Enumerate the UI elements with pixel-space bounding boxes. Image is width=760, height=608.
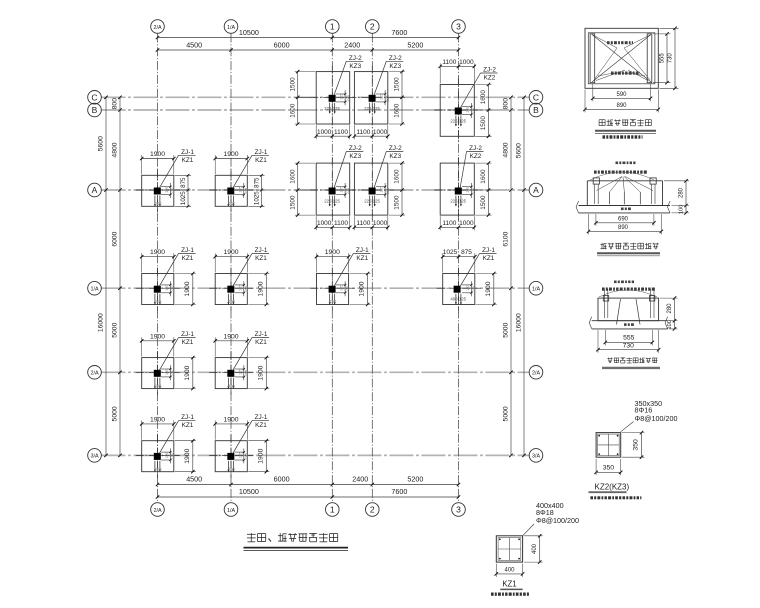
svg-text:5000: 5000 xyxy=(112,322,119,337)
svg-text:1/A: 1/A xyxy=(90,287,98,293)
svg-text:5000: 5000 xyxy=(112,406,119,421)
svg-text:1900: 1900 xyxy=(150,151,165,158)
svg-text:KZ3: KZ3 xyxy=(389,153,401,160)
svg-text:280: 280 xyxy=(667,303,673,314)
svg-text:800: 800 xyxy=(503,98,510,110)
svg-text:400: 400 xyxy=(228,201,236,206)
svg-text:1900: 1900 xyxy=(223,249,238,256)
svg-text:KZ1: KZ1 xyxy=(255,422,267,429)
svg-text:1600: 1600 xyxy=(480,90,487,105)
svg-text:800: 800 xyxy=(112,98,119,110)
svg-text:ZJ-2: ZJ-2 xyxy=(483,67,496,74)
svg-text:7600: 7600 xyxy=(391,28,407,37)
svg-text:ZJ-2: ZJ-2 xyxy=(349,145,362,152)
svg-text:3/A: 3/A xyxy=(90,454,98,460)
svg-text:555: 555 xyxy=(623,335,635,342)
svg-text:KZ3: KZ3 xyxy=(349,153,361,160)
svg-text:5200: 5200 xyxy=(407,475,423,484)
svg-text:7600: 7600 xyxy=(391,487,407,496)
svg-text:1000: 1000 xyxy=(317,129,332,136)
svg-text:225: 225 xyxy=(472,188,476,194)
svg-text:280: 280 xyxy=(679,187,685,198)
svg-text:1000: 1000 xyxy=(373,129,388,136)
svg-text:KZ1: KZ1 xyxy=(255,339,267,346)
svg-text:125: 125 xyxy=(466,186,470,192)
svg-text:1500: 1500 xyxy=(289,77,296,92)
svg-text:1900: 1900 xyxy=(223,416,238,423)
svg-text:ZJ-2: ZJ-2 xyxy=(389,55,402,62)
svg-text:590: 590 xyxy=(616,92,627,98)
svg-text:KZ1: KZ1 xyxy=(255,157,267,164)
svg-text:A: A xyxy=(533,185,539,195)
svg-text:4500: 4500 xyxy=(186,41,202,50)
svg-text:225: 225 xyxy=(245,286,249,292)
svg-text:875: 875 xyxy=(253,177,260,188)
svg-text:730: 730 xyxy=(668,53,674,64)
svg-text:400: 400 xyxy=(450,297,458,302)
svg-text:2: 2 xyxy=(370,505,375,515)
svg-text:125: 125 xyxy=(165,452,169,458)
svg-text:225: 225 xyxy=(171,453,175,459)
svg-text:125: 125 xyxy=(238,369,242,375)
svg-text:400: 400 xyxy=(228,466,236,471)
svg-text:1025: 1025 xyxy=(253,191,260,205)
svg-text:225: 225 xyxy=(364,199,372,204)
svg-text:1500: 1500 xyxy=(394,77,401,92)
svg-text:1100: 1100 xyxy=(442,220,456,227)
svg-text:225: 225 xyxy=(346,188,350,194)
svg-text:225: 225 xyxy=(472,286,476,292)
svg-text:ZJ-2: ZJ-2 xyxy=(389,145,402,152)
svg-text:ZJ-2: ZJ-2 xyxy=(469,145,482,152)
svg-text:1100: 1100 xyxy=(442,59,456,66)
svg-text:1600: 1600 xyxy=(394,103,401,118)
svg-text:400: 400 xyxy=(329,299,337,304)
svg-text:6100: 6100 xyxy=(503,231,510,246)
svg-text:125: 125 xyxy=(340,94,344,100)
svg-text:730: 730 xyxy=(623,342,635,349)
svg-text:1500: 1500 xyxy=(289,195,296,210)
svg-text:10500: 10500 xyxy=(239,487,259,496)
svg-text:125: 125 xyxy=(165,369,169,375)
svg-text:KZ1: KZ1 xyxy=(255,255,267,262)
svg-text:2/A: 2/A xyxy=(532,371,540,377)
svg-text:1/A: 1/A xyxy=(532,287,540,293)
svg-text:1500: 1500 xyxy=(480,116,487,131)
svg-text:890: 890 xyxy=(616,103,627,109)
svg-text:1900: 1900 xyxy=(257,281,264,296)
svg-text:2400: 2400 xyxy=(344,41,360,50)
svg-text:1900: 1900 xyxy=(184,448,191,463)
svg-text:KZ1: KZ1 xyxy=(182,255,194,262)
svg-text:1000: 1000 xyxy=(317,220,332,227)
svg-text:1900: 1900 xyxy=(184,281,191,296)
svg-text:1600: 1600 xyxy=(289,169,296,184)
svg-text:KZ1: KZ1 xyxy=(356,255,368,262)
svg-text:225: 225 xyxy=(171,286,175,292)
svg-text:1900: 1900 xyxy=(184,365,191,380)
svg-text:4800: 4800 xyxy=(112,142,119,157)
svg-text:1100: 1100 xyxy=(356,129,370,136)
svg-text:2/A: 2/A xyxy=(153,508,161,514)
svg-text:1900: 1900 xyxy=(150,333,165,340)
svg-text:ZJ-1: ZJ-1 xyxy=(181,331,194,338)
svg-text:1600: 1600 xyxy=(289,103,296,118)
svg-text:6000: 6000 xyxy=(274,41,290,50)
svg-text:1900: 1900 xyxy=(150,416,165,423)
svg-text:ZJ-1: ZJ-1 xyxy=(255,247,268,254)
svg-text:225: 225 xyxy=(245,453,249,459)
svg-text:400: 400 xyxy=(155,466,163,471)
svg-text:5600: 5600 xyxy=(98,136,105,151)
svg-text:400: 400 xyxy=(228,383,236,388)
svg-text:1000: 1000 xyxy=(373,220,388,227)
svg-text:KZ3: KZ3 xyxy=(349,63,361,70)
svg-text:225: 225 xyxy=(450,119,458,124)
svg-text:KZ3: KZ3 xyxy=(389,63,401,70)
svg-text:125: 125 xyxy=(333,106,341,111)
svg-text:1900: 1900 xyxy=(223,333,238,340)
svg-text:1500: 1500 xyxy=(480,195,487,210)
svg-text:1900: 1900 xyxy=(150,249,165,256)
svg-text:ZJ-2: ZJ-2 xyxy=(349,55,362,62)
svg-text:350: 350 xyxy=(603,465,615,472)
svg-text:6000: 6000 xyxy=(274,475,290,484)
svg-text:1900: 1900 xyxy=(359,281,366,296)
svg-text:KZ1: KZ1 xyxy=(182,339,194,346)
svg-text:1900: 1900 xyxy=(257,365,264,380)
svg-text:1100: 1100 xyxy=(334,129,348,136)
svg-text:400: 400 xyxy=(532,543,538,554)
svg-text:ZJ-1: ZJ-1 xyxy=(356,247,369,254)
svg-text:1/A: 1/A xyxy=(227,508,235,514)
svg-text:225: 225 xyxy=(472,108,476,114)
svg-text:B: B xyxy=(533,105,539,115)
svg-text:225: 225 xyxy=(386,95,390,101)
svg-text:400: 400 xyxy=(155,201,163,206)
svg-text:KZ1: KZ1 xyxy=(483,255,495,262)
svg-text:225: 225 xyxy=(324,199,332,204)
svg-text:ZJ-1: ZJ-1 xyxy=(255,414,268,421)
svg-text:400: 400 xyxy=(155,299,163,304)
svg-text:KZ1: KZ1 xyxy=(182,422,194,429)
svg-text:ZJ-1: ZJ-1 xyxy=(181,247,194,254)
svg-text:125: 125 xyxy=(466,285,470,291)
svg-text:1500: 1500 xyxy=(394,195,401,210)
svg-text:1/A: 1/A xyxy=(227,25,235,31)
svg-text:6000: 6000 xyxy=(112,231,119,246)
svg-text:ZJ-1: ZJ-1 xyxy=(255,331,268,338)
svg-text:1025: 1025 xyxy=(180,191,187,205)
svg-text:125: 125 xyxy=(459,297,467,302)
svg-text:10500: 10500 xyxy=(239,28,259,37)
svg-text:2/A: 2/A xyxy=(90,371,98,377)
svg-text:225: 225 xyxy=(364,106,372,111)
svg-text:Φ8@100/200: Φ8@100/200 xyxy=(635,414,678,423)
svg-text:125: 125 xyxy=(373,199,381,204)
svg-text:C: C xyxy=(91,92,97,102)
svg-text:5600: 5600 xyxy=(516,143,523,158)
svg-text:690: 690 xyxy=(618,217,629,223)
svg-text:125: 125 xyxy=(459,199,467,204)
svg-text:1100: 1100 xyxy=(334,220,348,227)
svg-text:1900: 1900 xyxy=(485,281,492,296)
svg-text:225: 225 xyxy=(245,188,249,194)
svg-text:3: 3 xyxy=(456,505,461,515)
svg-text:4800: 4800 xyxy=(503,142,510,157)
svg-text:400: 400 xyxy=(504,567,515,573)
svg-text:5000: 5000 xyxy=(503,406,510,421)
svg-text:100: 100 xyxy=(679,205,685,214)
svg-text:4500: 4500 xyxy=(186,475,202,484)
svg-text:1: 1 xyxy=(330,22,335,32)
svg-text:125: 125 xyxy=(380,94,384,100)
svg-text:400: 400 xyxy=(155,383,163,388)
svg-text:1900: 1900 xyxy=(325,249,340,256)
svg-text:125: 125 xyxy=(238,285,242,291)
svg-text:125: 125 xyxy=(333,199,341,204)
svg-text:ZJ-1: ZJ-1 xyxy=(255,149,268,156)
svg-text:1100: 1100 xyxy=(356,220,370,227)
svg-text:225: 225 xyxy=(346,286,350,292)
svg-text:1000: 1000 xyxy=(459,220,474,227)
svg-text:125: 125 xyxy=(340,186,344,192)
svg-text:2/A: 2/A xyxy=(153,25,161,31)
svg-text:1025: 1025 xyxy=(443,249,458,256)
svg-text:C: C xyxy=(533,92,539,102)
svg-text:225: 225 xyxy=(324,106,332,111)
svg-text:KZ2(KZ3): KZ2(KZ3) xyxy=(595,482,630,491)
svg-text:350: 350 xyxy=(633,439,640,451)
svg-text:ZJ-1: ZJ-1 xyxy=(181,414,194,421)
svg-text:125: 125 xyxy=(373,106,381,111)
svg-text:890: 890 xyxy=(618,225,629,231)
svg-text:400: 400 xyxy=(228,299,236,304)
svg-text:16000: 16000 xyxy=(98,313,105,332)
svg-text:ZJ-1: ZJ-1 xyxy=(482,247,495,254)
svg-text:1000: 1000 xyxy=(459,59,474,66)
svg-text:875: 875 xyxy=(180,177,187,188)
svg-text:225: 225 xyxy=(171,188,175,194)
svg-text:555: 555 xyxy=(660,53,666,64)
svg-text:125: 125 xyxy=(459,119,467,124)
svg-text:125: 125 xyxy=(238,452,242,458)
svg-text:125: 125 xyxy=(165,285,169,291)
svg-text:125: 125 xyxy=(340,285,344,291)
svg-text:3: 3 xyxy=(456,22,461,32)
svg-text:16000: 16000 xyxy=(516,313,523,332)
svg-text:5200: 5200 xyxy=(407,41,423,50)
svg-text:KZ2: KZ2 xyxy=(484,75,496,82)
svg-text:1900: 1900 xyxy=(223,151,238,158)
svg-text:125: 125 xyxy=(466,106,470,112)
svg-text:125: 125 xyxy=(380,186,384,192)
svg-text:225: 225 xyxy=(386,188,390,194)
svg-text:Φ8@100/200: Φ8@100/200 xyxy=(536,516,579,525)
svg-text:225: 225 xyxy=(245,370,249,376)
svg-text:ZJ-1: ZJ-1 xyxy=(181,149,194,156)
svg-text:1600: 1600 xyxy=(394,169,401,184)
svg-text:225: 225 xyxy=(450,199,458,204)
svg-text:225: 225 xyxy=(346,95,350,101)
svg-text:125: 125 xyxy=(165,186,169,192)
svg-text:125: 125 xyxy=(238,186,242,192)
svg-text:5000: 5000 xyxy=(503,322,510,337)
svg-text:2: 2 xyxy=(370,22,375,32)
svg-text:3/A: 3/A xyxy=(532,454,540,460)
svg-text:A: A xyxy=(92,185,98,195)
svg-text:B: B xyxy=(92,105,98,115)
svg-text:225: 225 xyxy=(171,370,175,376)
svg-text:875: 875 xyxy=(461,249,472,256)
svg-text:1600: 1600 xyxy=(480,169,487,184)
svg-text:KZ1: KZ1 xyxy=(502,580,516,589)
svg-text:KZ2: KZ2 xyxy=(470,153,482,160)
svg-text:1: 1 xyxy=(330,505,335,515)
svg-text:1900: 1900 xyxy=(257,448,264,463)
svg-text:KZ1: KZ1 xyxy=(182,157,194,164)
svg-text:2400: 2400 xyxy=(352,475,368,484)
svg-text:100: 100 xyxy=(667,320,673,329)
